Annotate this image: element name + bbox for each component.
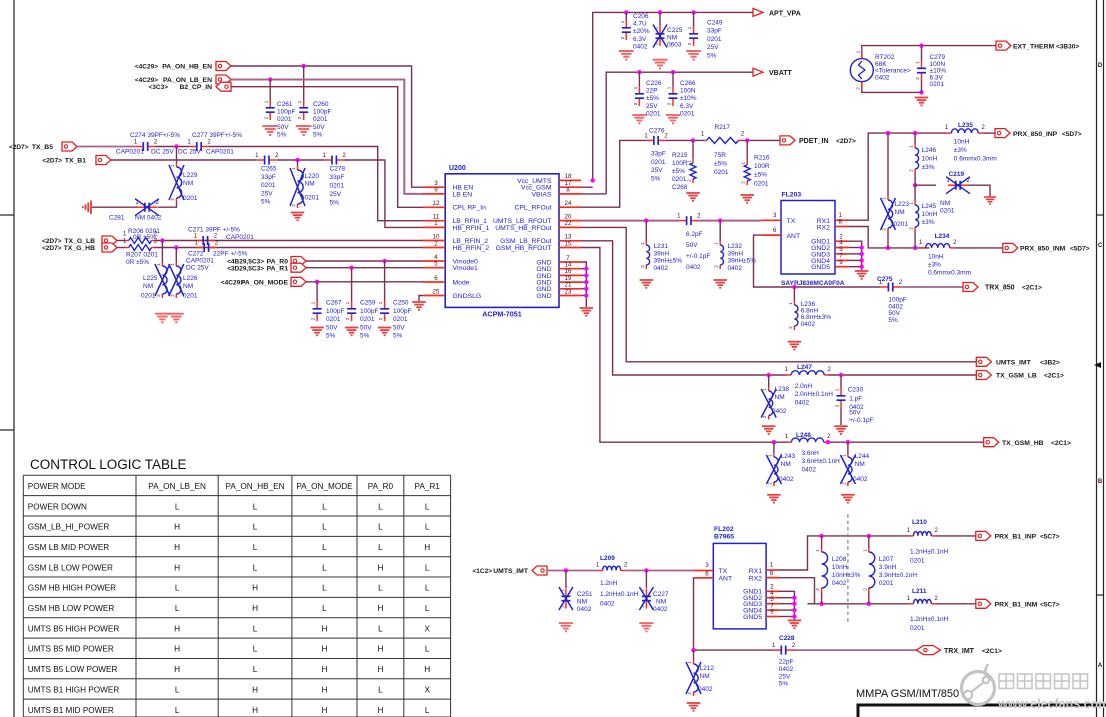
svg-text:C225: C225 [667,27,683,34]
FL203 pin 3 TX [761,219,781,221]
ground [713,280,727,288]
svg-text:H: H [377,665,383,674]
U200 pin 5 Vmode1 [423,267,445,269]
svg-text:39nH±5%: 39nH±5% [654,258,683,265]
capacitor C278 [324,159,331,161]
junction [745,138,749,142]
svg-text:C267: C267 [326,300,342,307]
op-amp U200 ACPM-7051 box [445,174,559,308]
svg-text:L226: L226 [183,275,198,282]
resistor R216 shunt [746,140,748,160]
port PRX_850_INM [1003,243,1018,252]
svg-text:<3B2>: <3B2> [1040,360,1060,367]
wire CPL_RFOut riser [581,140,646,207]
U200 pin 21 GND [559,288,581,290]
wire TX_B5 to pin 11 [209,147,424,221]
svg-text:L: L [253,665,258,674]
svg-text:CONTROL LOGIC TABLE: CONTROL LOGIC TABLE [30,457,187,472]
wire ANT to TRX_IMT [694,578,774,650]
svg-text:X: X [424,685,430,694]
svg-text:3.9nH±0.1nH: 3.9nH±0.1nH [879,572,918,579]
ground [915,98,929,106]
svg-text:0402: 0402 [875,74,890,81]
svg-text:C251: C251 [577,591,593,598]
svg-text:GNDSLG: GNDSLG [453,293,482,300]
svg-text:25V: 25V [261,190,273,197]
U200 pin 24 CPL_RFOut [559,206,581,208]
svg-text:RX2: RX2 [817,224,830,231]
svg-text:±5%: ±5% [714,161,727,168]
svg-text:NM: NM [940,200,950,207]
svg-text:C281: C281 [109,215,125,222]
inductor L210 [910,535,914,537]
junction [867,602,871,606]
svg-text:100R: 100R [672,160,688,167]
svg-text:±5%: ±5% [646,95,659,102]
svg-text:5: 5 [434,261,438,268]
svg-text:15: 15 [565,240,572,247]
junction [268,77,272,81]
inductor L235 [947,132,951,134]
capacitor C227 NM shunt [645,571,647,589]
svg-text:DC 25V: DC 25V [151,149,174,156]
svg-text:NM: NM [183,283,193,290]
svg-text:C271 39PF +/-5%: C271 39PF +/-5% [188,227,240,234]
wire TX_GSM_LB from pin 13 [581,241,787,375]
inductor L229 shunt NM [176,147,178,164]
svg-text:5%: 5% [888,317,898,324]
svg-text:L: L [253,563,258,572]
svg-text:6: 6 [773,227,777,234]
svg-text:R216: R216 [754,155,770,162]
svg-text:NM: NM [577,599,587,606]
wire to ground [968,185,990,196]
svg-text:L234: L234 [935,233,950,240]
svg-text:Mode: Mode [453,279,470,286]
wire [901,286,963,288]
svg-text:6.3V: 6.3V [633,36,647,43]
svg-text:0402: 0402 [577,606,592,613]
U200 pin 10 LB_RFIN_2 [423,240,445,242]
capacitor C277 [189,146,196,148]
inductor L209 [599,570,603,572]
svg-text:TX: TX [787,218,796,225]
svg-text:22: 22 [565,220,572,227]
svg-text:10nH: 10nH [922,211,938,218]
svg-text:<5D7>: <5D7> [1062,131,1082,138]
inductor L225 shunt NM [161,241,163,263]
junction [691,648,695,652]
wire [828,441,984,443]
ground [262,126,278,135]
FL202 pin 9 GND5 [766,616,779,618]
wire [117,247,126,249]
svg-text:0201: 0201 [894,221,909,228]
junction [792,285,796,289]
svg-text:<3B30>: <3B30> [1056,43,1079,50]
svg-text:POWER MODE: POWER MODE [28,482,86,491]
svg-text:L: L [378,523,383,532]
ground [666,115,680,123]
wire RX2 riser [848,227,929,248]
resistor R206 [126,240,129,242]
svg-text:PDET_IN: PDET_IN [799,138,829,145]
port PRX_B1_INM [976,599,991,608]
junction [913,131,917,135]
svg-text:GSM_LB_HI_POWER: GSM_LB_HI_POWER [28,523,110,532]
capacitor C228 [774,649,781,651]
svg-text:<4C29>: <4C29> [135,64,158,71]
svg-text:C228: C228 [779,635,795,642]
U200 pin 14 GND [559,268,581,270]
wire C261 drop [269,80,271,101]
port PRX_B1_INP [976,531,991,540]
port PDET_IN [780,136,795,145]
svg-text:5%: 5% [330,200,340,207]
ground [788,620,802,628]
svg-text:L: L [253,543,258,552]
U200 pin 25 GNDSLG [423,295,445,297]
svg-text:75R: 75R [714,152,726,159]
svg-text:NM: NM [775,394,785,401]
svg-text:50V: 50V [326,324,338,331]
svg-text:NM: NM [895,209,905,216]
ground [653,60,668,69]
svg-text:PA_R1: PA_R1 [415,482,441,491]
svg-text:<5C7>: <5C7> [1040,602,1060,609]
svg-text:50V: 50V [686,242,698,249]
svg-text:23: 23 [565,288,572,295]
svg-text:1.2nH±0.1nH: 1.2nH±0.1nH [910,616,949,623]
FL202 pin 2 GND1 [766,590,779,592]
svg-text:5%: 5% [277,131,287,138]
junction [819,534,823,538]
watermark logo [962,664,995,705]
wire RX1 riser [848,133,947,220]
svg-text:TX: TX [719,568,728,575]
svg-text:L: L [322,523,327,532]
svg-text:L: L [425,604,430,613]
svg-text:FL202: FL202 [714,526,734,533]
inductor L238 shunt NM [768,375,770,387]
wire [699,220,761,222]
junction [564,568,568,572]
svg-text:C276: C276 [649,128,665,135]
svg-text:C219: C219 [949,171,965,178]
inductor L207 shunt [868,536,870,548]
junction [382,259,386,263]
U200 pin 12 CPL RF_In [423,206,445,208]
svg-text:0201: 0201 [330,183,345,190]
wire VBATT rail [606,72,753,194]
svg-text:H: H [174,563,180,572]
capacitor C276 [646,139,653,141]
svg-text:H: H [252,685,258,694]
wire GNDSLG to ground [419,296,423,302]
svg-text:NM: NM [656,599,666,606]
wire to ground [91,206,137,208]
wire RX1 riser [779,536,910,570]
wire RX2 riser [779,578,815,604]
svg-text:0402: 0402 [654,265,669,272]
svg-text:UMTS_IMT: UMTS_IMT [493,568,529,575]
U200 pin 17 Vcc_GSM [559,186,581,188]
svg-text:±3%: ±3% [954,147,967,154]
FL203 pin 2 GND1 [835,240,848,242]
capacitor C259 [351,268,353,301]
svg-text:5%: 5% [261,199,271,206]
svg-text:5%: 5% [360,333,370,340]
capacitor 6.2pF [679,220,686,222]
wire L229 to C281 [158,202,177,207]
wire C260 drop [303,66,305,100]
svg-text:10nH: 10nH [954,139,970,146]
svg-text:L246: L246 [922,147,937,154]
capacitor C225 NM [659,12,661,26]
svg-text:<2D7>: <2D7> [42,245,62,252]
svg-text:R207 0201: R207 0201 [126,252,158,259]
FL202 pin 4 GND2 [766,597,779,599]
svg-text:C259: C259 [360,300,376,307]
svg-text:3.6nH: 3.6nH [802,450,820,457]
svg-text:U200: U200 [449,165,466,172]
svg-text:22pF: 22pF [779,659,794,666]
wire [625,570,694,572]
svg-text:C278: C278 [330,166,346,173]
svg-text:PA_R1: PA_R1 [267,265,289,272]
port PRX_850_INP [995,129,1010,138]
wire Vcc_GSM join [581,186,593,188]
ground [984,197,996,204]
svg-text:LB_RFIN_2: LB_RFIN_2 [453,238,489,245]
svg-text:H: H [377,563,383,572]
svg-text:NM: NM [143,283,153,290]
svg-text:H: H [377,604,383,613]
U200 pin 15 GSM_HB_RFOUT [559,247,581,249]
U200 pin 13 GSM_LB_RFOut [559,240,581,242]
svg-text:9: 9 [839,259,843,266]
svg-text:0201: 0201 [707,36,722,43]
FL203 pin 6 ANT [763,234,781,236]
svg-text:H: H [424,665,430,674]
ground [412,302,426,310]
svg-text:CPL RF_In: CPL RF_In [453,205,487,212]
svg-text:L245: L245 [922,203,937,210]
svg-text:H: H [252,604,258,613]
wire UMTS_IMT from pin 22 [581,227,976,361]
svg-text:±5%: ±5% [672,168,685,175]
svg-text:APT_VPA: APT_VPA [769,10,801,17]
svg-text:POWER DOWN: POWER DOWN [28,502,87,511]
sheet border right lines [1096,0,1098,717]
svg-text:NM: NM [667,35,677,42]
svg-text:<2C1>: <2C1> [1051,440,1071,447]
svg-text:100pF: 100pF [360,308,378,315]
svg-text:L232: L232 [728,243,743,250]
svg-text:H: H [377,706,383,715]
svg-text:L: L [253,624,258,633]
svg-text:L: L [322,543,327,552]
inductor L246 [914,133,916,144]
FL203 pin 9 GND5 [835,266,848,268]
junction [174,144,178,148]
wire ANT to TRX_850 [754,235,881,287]
svg-text:2: 2 [434,240,438,247]
svg-text:GSM HB HIGH POWER: GSM HB HIGH POWER [28,584,116,593]
svg-text:+/-0.1pF: +/-0.1pF [849,417,873,424]
svg-text:<2C1>: <2C1> [1044,373,1064,380]
inductor L226 shunt NM [175,248,177,263]
wire PA_ON_LB_EN to pin 9 [231,80,424,194]
svg-text:EXT_THERM: EXT_THERM [1013,43,1055,50]
svg-text:33pF: 33pF [707,28,722,35]
svg-text:L: L [425,523,430,532]
svg-text:22PF +/-5%: 22PF +/-5% [213,251,248,258]
junction [886,131,890,135]
junction [886,246,890,250]
svg-text:H: H [321,665,327,674]
wire [742,139,781,141]
svg-text:www.elecfans.com: www.elecfans.com [997,697,1106,711]
svg-text:10nH: 10nH [928,254,944,261]
svg-text:3: 3 [705,562,709,569]
inductor L236 shunt [793,287,795,301]
svg-text:2.0nH: 2.0nH [795,383,813,390]
svg-text:1: 1 [770,562,774,569]
svg-text:±20%: ±20% [633,28,650,35]
svg-text:NM 0402: NM 0402 [135,215,162,222]
inductor L234 [922,247,926,249]
svg-text:100pF: 100pF [326,308,344,315]
junction [767,373,771,377]
capacitor C260 [303,100,305,107]
svg-text:X: X [424,624,430,633]
wire UMTS_LB_RFOUT chain [581,220,679,222]
U200 pin 7 GND [559,261,581,263]
ground [640,280,654,288]
svg-text:VBIAS: VBIAS [531,191,551,198]
FL202 pin 1 RX1 [766,569,779,571]
junction [658,10,662,14]
svg-text:L: L [425,502,430,511]
svg-text:MMPA GSM/IMT/850: MMPA GSM/IMT/850 [856,688,959,700]
svg-text:A: A [1098,663,1103,669]
svg-text:GND5: GND5 [811,264,830,271]
capacitor C265 [257,159,264,161]
svg-text:L225: L225 [143,275,158,282]
svg-text:50V: 50V [277,124,289,131]
capacitor C275 [881,286,888,288]
svg-text:0201: 0201 [672,176,687,183]
resistor R217 [704,139,707,141]
svg-text:L: L [175,706,180,715]
FL203 pin 5 GND3 [835,253,848,255]
svg-text:100pF: 100pF [313,109,331,116]
svg-text:ANT: ANT [719,576,733,583]
svg-text:9: 9 [434,187,438,194]
svg-text:2.0nH±0.1nH: 2.0nH±0.1nH [795,391,834,398]
wire FL202 gnd collector [779,591,794,619]
filter FL203 SAYRJ836MCA0F0A box [781,201,835,275]
svg-text:UMTS B1 MID POWER: UMTS B1 MID POWER [28,706,114,715]
svg-text:5%: 5% [707,52,717,59]
svg-text:0201: 0201 [360,316,375,323]
svg-text:4.7U: 4.7U [633,21,647,28]
wire TX_GSM_HB from pin 15 [581,248,788,443]
svg-text:TX_G_HB: TX_G_HB [64,245,95,252]
capacitor C272 [196,247,203,249]
junction [913,246,917,250]
svg-text:L248: L248 [796,432,811,439]
wire [794,649,917,651]
svg-text:50V: 50V [360,324,372,331]
svg-text:9: 9 [770,609,774,616]
svg-text:L231: L231 [654,243,669,250]
svg-text:0201: 0201 [183,293,198,300]
svg-text:<1C2>: <1C2> [472,568,492,575]
capacitor C230 [840,375,842,388]
svg-text:L: L [322,604,327,613]
junction [644,218,648,222]
svg-text:0.6mmx0.3mm: 0.6mmx0.3mm [928,270,971,277]
svg-text:RX1: RX1 [749,568,762,575]
svg-text:<2D7>: <2D7> [42,238,62,245]
ground [762,426,776,434]
svg-text:L: L [425,706,430,715]
svg-text:UMTS_HB_RFOut: UMTS_HB_RFOut [495,225,551,232]
port TRX_IMT [916,646,940,655]
ground [559,623,573,631]
svg-text:L: L [175,584,180,593]
U200 pin 16 GND [559,274,581,276]
wire PA_ON_HB_EN to pin 3 [231,66,424,187]
junction [846,440,850,444]
svg-text:PRX_850_INM: PRX_850_INM [1020,246,1066,253]
U200 pin 2 HB_RFIN_2 [423,247,445,249]
inductor L220 shunt NM [297,160,299,166]
wire C219 tap [915,184,936,186]
FL203 pin 1 RX1 [835,219,848,221]
control logic table [23,475,450,717]
wire [666,139,704,141]
svg-text:<5D7>: <5D7> [1070,246,1090,253]
svg-text:6.3V: 6.3V [680,103,694,110]
junction [691,10,695,14]
capacitor C279 [921,46,923,61]
svg-text:L238: L238 [775,386,790,393]
svg-text:L220: L220 [305,173,320,180]
inductor L223 shunt NM [887,133,889,196]
svg-text:GND: GND [536,293,551,300]
wire PA_ON_MODE to pin 6 [306,281,424,283]
border tick arrow [1094,362,1101,368]
svg-text:L212: L212 [700,665,715,672]
svg-text:D: D [1098,63,1103,69]
svg-text:6: 6 [705,571,709,578]
wire TX_B5 [77,146,136,148]
FL203 pin 8 RX2 [835,226,848,228]
svg-text:CAP0201: CAP0201 [206,149,234,156]
junction [349,266,353,270]
ground [345,328,359,336]
svg-text:ACPM-7051: ACPM-7051 [482,310,522,319]
title block box [858,705,1106,717]
svg-text:HB_RFIN_2: HB_RFIN_2 [453,245,490,252]
resistor R215 shunt [692,140,694,158]
U200 pin 9 LB EN [423,193,445,195]
svg-text:CAP0201: CAP0201 [116,149,144,156]
svg-text:1.pF: 1.pF [849,396,862,403]
